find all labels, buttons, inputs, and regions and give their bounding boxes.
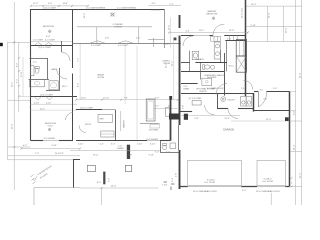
svg-text:22'-2": 22'-2" xyxy=(33,3,39,5)
dim row above garage xyxy=(155,106,172,108)
door arcs right block xyxy=(183,36,253,95)
bedroom 2 bottom wall xyxy=(30,140,73,142)
master bath walls xyxy=(181,41,227,95)
svg-text:CHASE: CHASE xyxy=(117,147,125,150)
covered porch line xyxy=(77,26,152,28)
tub bath1 xyxy=(49,81,58,90)
great room interior dim lines xyxy=(125,40,174,140)
svg-text:4'-10": 4'-10" xyxy=(78,144,84,146)
svg-text:4'-0 CSMT EGRESS: 4'-0 CSMT EGRESS xyxy=(117,7,137,9)
svg-text:9'-0": 9'-0" xyxy=(109,178,111,182)
toilet bath1 xyxy=(35,67,39,74)
master closet shelves xyxy=(211,35,238,41)
bedroom 3 bottom window wall xyxy=(30,45,72,47)
svg-text:11'-10": 11'-10" xyxy=(103,98,110,100)
svg-text:7 1/2": 7 1/2" xyxy=(162,185,168,187)
kitchen / hall wall xyxy=(115,110,117,141)
bedroom 2 top window wall xyxy=(30,96,77,98)
svg-text:4'-2": 4'-2" xyxy=(23,145,27,147)
master south wall xyxy=(181,35,245,37)
patio bottom dim xyxy=(80,187,159,189)
svg-text:3'-0": 3'-0" xyxy=(152,3,156,5)
svg-text:16'-1": 16'-1" xyxy=(199,30,205,32)
patio wall bar xyxy=(103,172,105,185)
svg-text:5'-0": 5'-0" xyxy=(294,111,296,115)
kitchen door arc xyxy=(79,126,86,133)
kitchen counter south xyxy=(140,122,160,124)
svg-text:6'-10": 6'-10" xyxy=(150,144,156,146)
svg-text:21'-4": 21'-4" xyxy=(294,144,296,150)
wall end marks xyxy=(164,182,175,190)
svg-text:9'-10": 9'-10" xyxy=(149,155,155,157)
bedroom 2 right wall xyxy=(72,96,74,140)
bedroom 3 left wall xyxy=(30,9,32,45)
svg-text:6'-0 SLIDER: 6'-0 SLIDER xyxy=(147,139,159,141)
garage top wall xyxy=(179,111,193,113)
left exterior wall xyxy=(30,45,32,140)
svg-text:12'-2": 12'-2" xyxy=(299,172,301,178)
svg-text:2'-8": 2'-8" xyxy=(105,38,109,40)
svg-text:21'-4": 21'-4" xyxy=(266,119,272,121)
garage door rect 2 xyxy=(257,160,285,185)
svg-text:DINING: DINING xyxy=(163,61,171,63)
kitchen counter xyxy=(98,115,113,123)
window tents xyxy=(34,43,52,46)
svg-text:4'-0 CSMT: 4'-0 CSMT xyxy=(118,45,129,47)
garage dim lines xyxy=(180,115,241,117)
tick marks xyxy=(20,5,249,189)
svg-text:23'-2": 23'-2" xyxy=(11,81,13,87)
bottom-left dim rows xyxy=(21,148,80,150)
svg-text:(2) 3'-0 CSMT: (2) 3'-0 CSMT xyxy=(80,108,94,110)
svg-text:BEDROOM: BEDROOM xyxy=(207,14,218,16)
ceiling fan bedroom 3 xyxy=(48,30,51,33)
central thick wall xyxy=(179,15,181,28)
svg-text:13'-4": 13'-4" xyxy=(93,155,99,157)
bath block interior walls xyxy=(29,41,62,91)
svg-text:3'-0": 3'-0" xyxy=(111,144,115,146)
svg-text:SHOWER: SHOWER xyxy=(207,77,217,79)
svg-text:4'-10": 4'-10" xyxy=(52,145,58,147)
svg-text:BATH: BATH xyxy=(52,68,58,71)
rear patio left edge xyxy=(73,160,75,188)
master bedroom dim row xyxy=(169,31,248,33)
svg-text:LINEN: LINEN xyxy=(164,44,171,46)
svg-text:2'-8": 2'-8" xyxy=(176,173,178,177)
svg-text:8'-6": 8'-6" xyxy=(78,83,80,87)
svg-text:7'-0": 7'-0" xyxy=(35,153,39,155)
svg-text:(2) 4'-0 CSMT: (2) 4'-0 CSMT xyxy=(40,94,54,96)
bedroom 3 / hall right wall xyxy=(72,9,74,68)
top dimension row xyxy=(31,5,302,8)
svg-text:24'-0": 24'-0" xyxy=(111,186,117,188)
svg-text:(2) 4'-0 CSMT: (2) 4'-0 CSMT xyxy=(38,47,52,49)
svg-text:5'-8": 5'-8" xyxy=(195,118,199,120)
patio posts xyxy=(87,165,95,171)
entry porch column xyxy=(285,117,289,121)
svg-text:4'-10": 4'-10" xyxy=(46,102,52,104)
front wall center with windows xyxy=(72,43,148,45)
fireplace chase xyxy=(127,145,130,159)
right wall dim ticks xyxy=(291,177,293,188)
porch posts xyxy=(96,27,98,43)
kitchen rear wall xyxy=(76,109,102,111)
svg-text:21'-0": 21'-0" xyxy=(268,12,270,18)
svg-text:2'-2": 2'-2" xyxy=(170,4,174,6)
svg-text:4'-0": 4'-0" xyxy=(46,36,50,38)
dining corner stubs xyxy=(148,39,164,41)
svg-text:14'-3": 14'-3" xyxy=(229,30,235,32)
svg-text:PANTRY: PANTRY xyxy=(123,119,126,128)
mud bench xyxy=(192,100,201,105)
svg-text:9'x10': 9'x10' xyxy=(48,126,54,128)
fence line xyxy=(34,187,80,189)
master right wall xyxy=(245,0,247,96)
svg-text:5'-4": 5'-4" xyxy=(227,38,231,40)
svg-text:2'-10": 2'-10" xyxy=(241,88,247,90)
fence note xyxy=(37,165,52,179)
svg-text:LN'DRY: LN'DRY xyxy=(228,99,236,101)
foyer entry xyxy=(254,91,258,93)
svg-text:LINEN: LINEN xyxy=(183,89,190,91)
shower with drain xyxy=(202,78,212,85)
svg-text:7'-2": 7'-2" xyxy=(155,152,159,154)
svg-text:16'-0": 16'-0" xyxy=(81,98,87,100)
ceiling fan master xyxy=(212,17,215,20)
svg-text:5'-8": 5'-8" xyxy=(128,155,132,157)
linen shelves and X-box xyxy=(236,40,246,57)
left edge mark xyxy=(0,43,3,46)
hall wall stub at x164.5 xyxy=(164,9,166,48)
bedroom 3 top-left: top wall xyxy=(31,9,165,11)
kitchen island cabinets xyxy=(101,131,114,137)
svg-text:W.I.C.: W.I.C. xyxy=(229,66,235,68)
svg-text:M.BATH: M.BATH xyxy=(196,58,204,61)
bedroom 3 interior dim line xyxy=(31,40,72,42)
svg-text:9'-0": 9'-0" xyxy=(172,178,174,182)
island xyxy=(146,99,155,121)
bath door arcs xyxy=(57,69,67,79)
shower bath1 xyxy=(30,66,34,76)
svg-text:4'-0 CSMT: 4'-0 CSMT xyxy=(91,45,102,47)
svg-text:2'-2": 2'-2" xyxy=(100,144,104,146)
garage column xyxy=(184,114,188,120)
svg-text:KITCHEN: KITCHEN xyxy=(149,130,159,132)
fridge xyxy=(165,108,169,116)
svg-text:2'-4": 2'-4" xyxy=(166,152,170,154)
svg-text:4'-0 CSMT: 4'-0 CSMT xyxy=(33,40,44,42)
svg-text:24'-8 1/2": 24'-8 1/2" xyxy=(55,153,64,155)
svg-text:2'-8": 2'-8" xyxy=(136,38,140,40)
svg-text:5'-0 SLIDER: 5'-0 SLIDER xyxy=(44,138,56,140)
svg-text:14'-4": 14'-4" xyxy=(172,60,174,66)
svg-text:31'-0": 31'-0" xyxy=(299,72,301,78)
svg-text:21'-4": 21'-4" xyxy=(225,118,231,120)
svg-text:(2) 4'-0 CSMT: (2) 4'-0 CSMT xyxy=(43,7,57,9)
svg-text:12'-0": 12'-0" xyxy=(166,62,168,68)
svg-text:14'-8": 14'-8" xyxy=(63,3,69,5)
svg-text:16'-0 OVERHEAD DOOR: 16'-0 OVERHEAD DOOR xyxy=(193,190,217,193)
svg-text:11'-6": 11'-6" xyxy=(169,25,171,30)
svg-text:35'-0": 35'-0" xyxy=(286,27,288,33)
svg-text:19'-0": 19'-0" xyxy=(11,123,13,129)
svg-text:8'-0": 8'-0" xyxy=(97,182,101,184)
svg-text:NOOK: NOOK xyxy=(85,124,92,126)
svg-text:9'-8": 9'-8" xyxy=(182,105,184,109)
svg-text:REF.: REF. xyxy=(100,119,105,121)
svg-text:BEDROOM: BEDROOM xyxy=(43,26,54,28)
ceiling fan bedroom 2 xyxy=(48,128,51,131)
bedroom 2 door arc xyxy=(66,113,74,121)
svg-text:(2) 3'-0 CSMT: (2) 3'-0 CSMT xyxy=(189,98,203,100)
svg-text:16'-0 OVERHEAD DOOR: 16'-0 OVERHEAD DOOR xyxy=(256,190,280,193)
rear wall of great room / kitchen xyxy=(76,140,170,142)
svg-text:5'-0": 5'-0" xyxy=(48,3,52,5)
left dimension lines xyxy=(8,2,73,190)
svg-text:11'-6" CLG: 11'-6" CLG xyxy=(242,8,244,18)
vanity bath1 xyxy=(30,80,45,87)
svg-text:5'-0": 5'-0" xyxy=(273,88,277,90)
svg-text:PORCH: PORCH xyxy=(115,27,123,29)
front door fan note symbol xyxy=(110,13,115,17)
powder room by patio xyxy=(161,141,179,153)
svg-text:8'-4": 8'-4" xyxy=(17,63,19,67)
svg-text:W.I.C.: W.I.C. xyxy=(62,86,68,88)
svg-text:4'-0 CSMT: 4'-0 CSMT xyxy=(45,40,56,42)
svg-text:4'-10": 4'-10" xyxy=(34,102,40,104)
right dimension column xyxy=(246,0,302,205)
center bottom vertical xyxy=(270,193,272,205)
master door arc xyxy=(213,24,224,35)
svg-text:3'-0 CSMT: 3'-0 CSMT xyxy=(151,9,162,11)
svg-text:9'-4": 9'-4" xyxy=(17,79,19,83)
garage door rect 1 xyxy=(188,160,242,185)
svg-text:3'-0": 3'-0" xyxy=(242,190,246,192)
svg-text:2'-10": 2'-10" xyxy=(137,144,143,146)
svg-text:11'-6": 11'-6" xyxy=(84,13,86,18)
laundry walls xyxy=(217,93,219,109)
svg-text:OFFICE: OFFICE xyxy=(199,91,207,93)
left rotated dims xyxy=(11,63,23,129)
svg-text:7'-8": 7'-8" xyxy=(124,98,128,100)
svg-text:ROOM: ROOM xyxy=(98,77,105,79)
svg-text:7'-2": 7'-2" xyxy=(155,106,159,108)
svg-text:17'-8": 17'-8" xyxy=(21,71,23,77)
master bath fixtures xyxy=(192,42,220,69)
stairs dark block xyxy=(169,114,180,120)
svg-text:GREAT: GREAT xyxy=(97,74,105,77)
svg-text:O.H. DOOR: O.H. DOOR xyxy=(204,182,216,184)
svg-text:7'-4": 7'-4" xyxy=(78,58,80,62)
svg-text:11'-2": 11'-2" xyxy=(40,108,45,110)
svg-text:MASTER: MASTER xyxy=(208,10,217,13)
interior dim row across kitchen xyxy=(76,99,178,101)
interior dim rows above bedroom2 xyxy=(30,103,77,105)
svg-text:6'-0 BARN DOOR: 6'-0 BARN DOOR xyxy=(207,87,224,90)
garage right wall xyxy=(289,92,291,187)
garage bottom wall xyxy=(179,186,289,188)
svg-text:14'-3": 14'-3" xyxy=(251,4,257,6)
svg-text:O.H. DOOR: O.H. DOOR xyxy=(262,181,274,183)
svg-text:3'-4": 3'-4" xyxy=(155,98,159,100)
svg-text:GARAGE: GARAGE xyxy=(223,128,234,132)
svg-text:4'-0 CSMT EGRESS: 4'-0 CSMT EGRESS xyxy=(86,7,106,9)
